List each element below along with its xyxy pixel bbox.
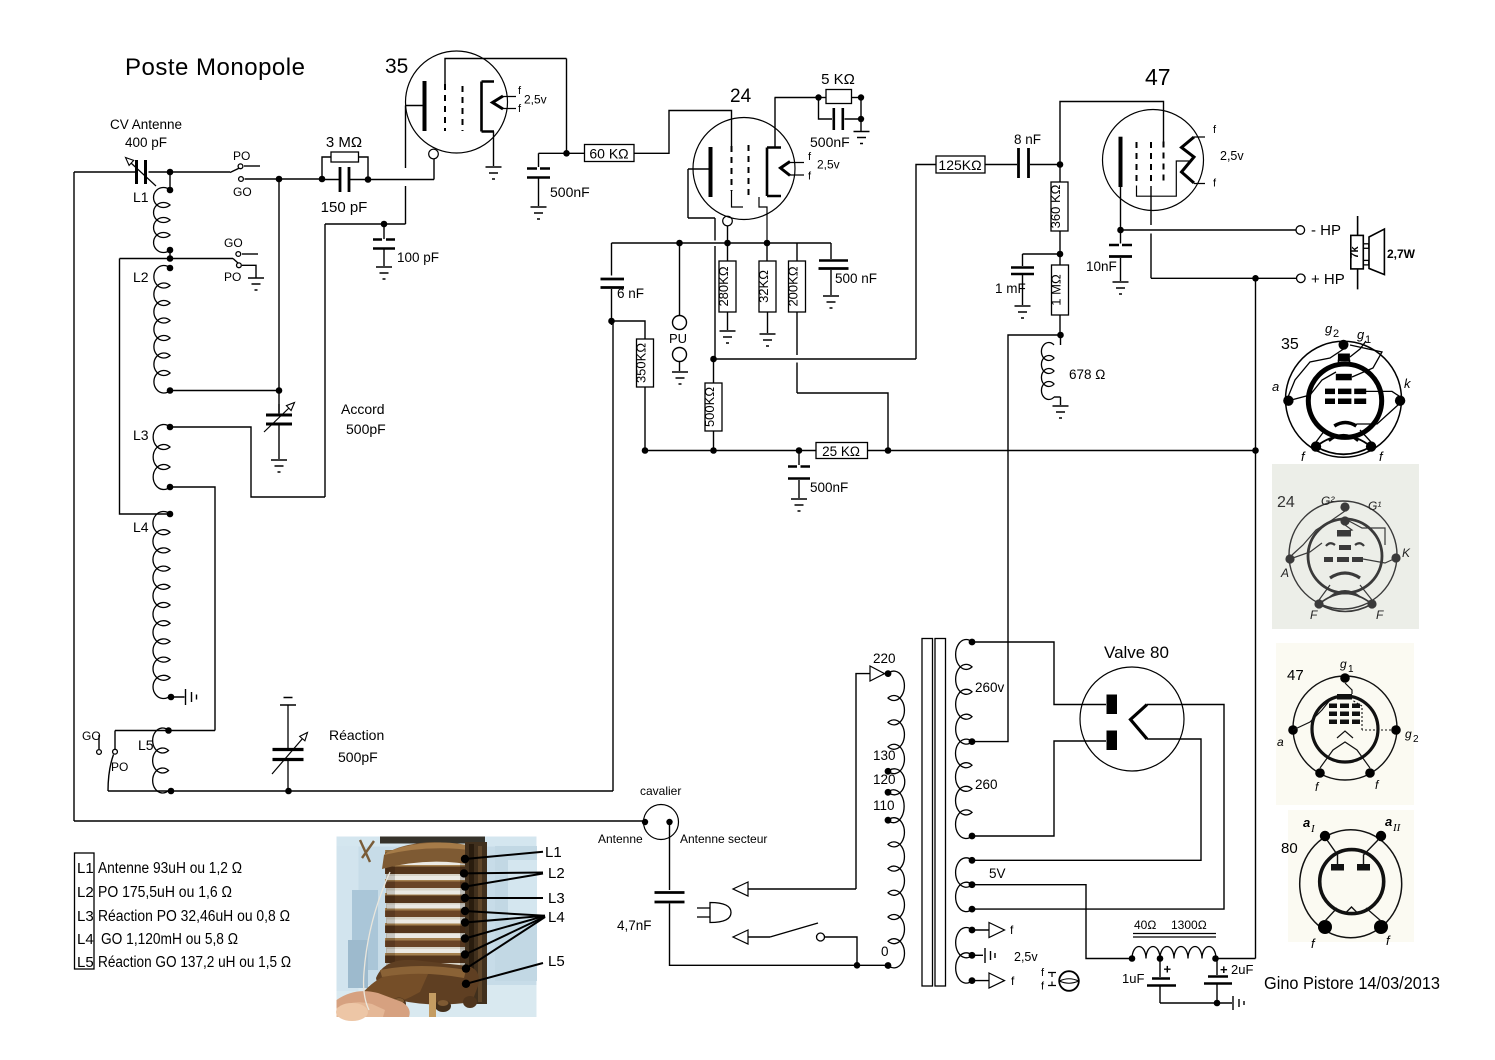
wire antenna input horizontal [74, 171, 135, 173]
switch S2 GO contact [236, 252, 241, 257]
svg-text:L3: L3 [548, 890, 565, 907]
svg-text:24: 24 [730, 86, 752, 107]
wire reaction rail [108, 790, 613, 792]
node L2 top [167, 265, 174, 272]
node sec 260 bottom [969, 833, 976, 840]
node 2.5v bottom [969, 977, 976, 984]
node bus cathode24 [724, 240, 731, 247]
svg-text:L3: L3 [133, 427, 149, 443]
wire PO contact up to L5 line [114, 731, 116, 750]
tube 35 filament leads [503, 97, 516, 109]
node 5V bottom [969, 906, 976, 913]
svg-text:280KΩ: 280KΩ [716, 266, 731, 306]
svg-text:F: F [1310, 608, 1318, 622]
node sec 260v top [969, 639, 976, 646]
svg-text:0: 0 [881, 944, 889, 959]
inductor L1 [154, 188, 171, 253]
wire choke right to HT bus [1216, 958, 1256, 960]
variable capacitor CV Antenne 400pF [137, 160, 146, 184]
switch S1 PO contact [238, 164, 243, 169]
svg-text:1 mF: 1 mF [995, 281, 1026, 296]
svg-text:- HP: - HP [1311, 222, 1341, 239]
ground tube 35 cathode [486, 167, 502, 179]
resistor 500Kohm [713, 359, 715, 383]
node 1Mohm bottom [1057, 332, 1064, 339]
svg-text:g: g [1405, 727, 1412, 741]
svg-text:Antenne secteur: Antenne secteur [680, 832, 767, 846]
wire 6nF to 350K [612, 321, 646, 339]
capacitor 10 nF [1120, 230, 1122, 244]
wire 2.5v bottom to arrow [972, 980, 989, 982]
node L3 bottom [167, 484, 174, 491]
choke 40ohm winding [1132, 947, 1160, 959]
pickup PU terminal top [673, 316, 687, 330]
svg-text:360 KΩ: 360 KΩ [1048, 184, 1063, 228]
tube V4 valve 80 envelope [1080, 667, 1184, 771]
svg-text:1uF: 1uF [1122, 971, 1144, 986]
svg-text:220: 220 [873, 651, 896, 666]
capacitor 100 pF [373, 238, 395, 241]
svg-text:1: 1 [1348, 664, 1354, 675]
svg-text:500KΩ: 500KΩ [702, 387, 717, 427]
arrow mains top [870, 666, 885, 681]
speaker driver links [1363, 244, 1369, 249]
resistor 200Kohm [796, 243, 798, 261]
svg-text:a: a [1272, 379, 1279, 394]
svg-text:+: + [1220, 962, 1228, 977]
node +HP junction [1252, 275, 1259, 282]
socket diagram 35 [1272, 321, 1412, 464]
svg-text:500nF: 500nF [810, 134, 850, 150]
node choke left [1129, 955, 1136, 962]
node L3 top [167, 424, 174, 431]
node tuning cap top [276, 387, 283, 394]
svg-text:Réaction: Réaction [329, 727, 384, 743]
wire tuning cap to ground [278, 425, 280, 459]
wire L1 bottom [169, 250, 171, 259]
svg-text:L2: L2 [133, 269, 149, 285]
ground 500nF fourth [791, 499, 807, 511]
node L1 winding top [167, 187, 174, 194]
wire bias bus [645, 450, 816, 452]
socket diagram 24 [1272, 464, 1419, 629]
svg-text:2,5v: 2,5v [1014, 950, 1038, 964]
node 6nF bottom [608, 318, 615, 325]
wire grid-line down to tuning cap [278, 179, 280, 413]
resistor 360 Kohm [1059, 165, 1061, 183]
capacitor 500nF second [819, 98, 833, 120]
svg-text:a: a [1385, 814, 1392, 829]
svg-text:5 KΩ: 5 KΩ [821, 71, 855, 88]
ground 10nF [1113, 282, 1129, 294]
capacitor 2uF electrolytic [1216, 959, 1218, 976]
wire valve filament bottom to 5V top tap [972, 739, 1201, 860]
node L1 bottom tap [167, 255, 174, 262]
svg-text:CV Antenne: CV Antenne [110, 117, 182, 132]
tube V3 type 47 envelope [1103, 110, 1204, 211]
coil photo [336, 837, 537, 1022]
resistor 60 Kohm [539, 152, 567, 154]
wire bottom rail [74, 820, 644, 822]
wire reaction rail up to 6nF node [612, 321, 614, 791]
resistor 5 Kohm [819, 97, 827, 99]
node 5K right [858, 94, 864, 100]
capacitor 4.7nF [655, 891, 685, 894]
svg-text:35: 35 [385, 55, 408, 78]
capacitor 500nF first [538, 153, 540, 167]
wire PU bottom to ground [679, 362, 681, 372]
svg-text:L5: L5 [138, 737, 154, 753]
svg-text:A: A [1280, 566, 1289, 580]
svg-text:500 nF: 500 nF [835, 271, 877, 286]
svg-text:Valve 80: Valve 80 [1104, 643, 1169, 662]
svg-text:10nF: 10nF [1086, 259, 1117, 274]
wire L2 bottom to tuning cap [170, 390, 279, 392]
svg-text:F: F [1376, 608, 1384, 622]
tube 35 cathode [482, 82, 495, 132]
wire left drop from antenna line [73, 172, 75, 821]
wire 260 bottom to valve plate 2 [972, 741, 1106, 836]
resistor R1 3 Mohm [322, 157, 331, 179]
capacitor 500nF fourth [798, 451, 800, 466]
svg-text:500pF: 500pF [346, 421, 386, 437]
svg-text:47: 47 [1145, 64, 1171, 90]
svg-text:Réaction GO 137,2 uH ou 1,5 Ω: Réaction GO 137,2 uH ou 1,5 Ω [98, 954, 291, 971]
svg-text:1300Ω: 1300Ω [1171, 918, 1207, 932]
ground switch2 PO [248, 278, 264, 290]
ground PU [672, 372, 688, 384]
inductor L4 [153, 512, 170, 699]
svg-text:24: 24 [1277, 494, 1295, 511]
svg-text:Gino Pistore 14/03/2013: Gino Pistore 14/03/2013 [1264, 973, 1440, 993]
ground 5K network [854, 132, 870, 144]
inductor L2 [154, 266, 170, 394]
node L2 bottom [167, 387, 174, 394]
svg-text:3 MΩ: 3 MΩ [326, 134, 362, 151]
valve 80 anode plate I [1107, 695, 1118, 715]
switch S2 PO contact [237, 263, 242, 268]
wire HT bus right [1255, 278, 1257, 958]
node choke center [1157, 955, 1164, 962]
wire 60K to tube24 grid [634, 111, 732, 154]
socket diagram 80 [1281, 810, 1414, 951]
node tap 130 [885, 768, 892, 775]
antenna tap symbol L4 bottom [174, 689, 197, 705]
valve 80 anode plate II [1107, 731, 1118, 751]
svg-text:2: 2 [1333, 328, 1339, 340]
node L4 bottom [168, 694, 175, 701]
svg-text:350KΩ: 350KΩ [634, 343, 649, 383]
tube 47 grid g1 [1163, 142, 1165, 186]
wire 260v top to valve plate 1 [972, 642, 1106, 705]
tube 47 grid g2 [1150, 142, 1152, 186]
svg-text:GO 1,120mH ou 5,8 Ω: GO 1,120mH ou 5,8 Ω [101, 931, 238, 948]
svg-text:K: K [1402, 546, 1411, 560]
resistor 350Kohm [637, 339, 654, 387]
svg-text:4,7nF: 4,7nF [617, 918, 652, 933]
svg-text:Antenne: Antenne [598, 832, 643, 846]
tube 35 filament [493, 96, 504, 109]
wire 5V mid tap to filter input [972, 885, 1132, 959]
node L4 top [167, 511, 174, 518]
node sec 260v bottom [969, 738, 976, 745]
resistor 1 Mohm [1059, 254, 1061, 265]
svg-text:g: g [1340, 657, 1347, 671]
valve 80 filament [1131, 705, 1148, 740]
wire tube35 top to 60K node [566, 59, 568, 154]
node bias bus left [642, 447, 649, 454]
node tube47 anode junction [1117, 227, 1124, 234]
svg-text:G¹: G¹ [1368, 499, 1381, 513]
tube 47 g3 internal link [1137, 161, 1190, 196]
wire grid top tube 47 [1060, 102, 1164, 165]
node L5 top [165, 727, 172, 734]
svg-text:L2: L2 [77, 884, 94, 901]
node 25K right [885, 447, 892, 454]
wire 4.7nF to zero tap [670, 904, 886, 966]
svg-text:5V: 5V [989, 866, 1006, 881]
capacitor 150 pF [340, 167, 349, 192]
wire 360K to node [1059, 231, 1061, 254]
node 5K left [815, 94, 821, 100]
wire 500K to bias bus [713, 431, 715, 451]
tube 47 filament leads [1194, 137, 1205, 184]
wire plate lead tube35 down [405, 106, 407, 169]
svg-text:L1: L1 [133, 189, 149, 205]
symbol 2.5v mid tap [985, 948, 995, 963]
node tap 220 [885, 670, 892, 677]
wire valve filament top to 5V bottom tap [972, 705, 1224, 910]
node 5V mid [969, 881, 976, 888]
arrow 2.5v bottom [989, 973, 1005, 988]
svg-text:G²: G² [1321, 494, 1335, 508]
transformer secondary 260 lower [956, 739, 973, 838]
tube 35 anode [423, 81, 427, 131]
tube 24 anode [709, 147, 713, 197]
wire mains top arrow [748, 674, 870, 889]
svg-text:130: 130 [873, 748, 896, 763]
tube 47 grid g3 [1136, 142, 1138, 186]
svg-text:L1: L1 [545, 844, 562, 861]
tube 35 grid g1 [444, 84, 446, 131]
wire GO contact to grid line [245, 178, 323, 180]
svg-text:100 pF: 100 pF [397, 250, 439, 265]
svg-text:60 KΩ: 60 KΩ [589, 146, 628, 162]
speaker transformer leads [1357, 216, 1359, 289]
svg-text:II: II [1392, 822, 1402, 834]
tube 35 grid top lead [445, 59, 567, 85]
node choke right [1212, 955, 1219, 962]
svg-text:Poste Monopole: Poste Monopole [125, 54, 305, 81]
node 500nF second right [858, 116, 864, 122]
svg-text:400 pF: 400 pF [125, 135, 167, 150]
svg-text:g: g [1357, 327, 1365, 342]
svg-text:GO: GO [233, 185, 252, 199]
mains switch blade [770, 923, 818, 937]
tube 24 grid g1 [731, 146, 733, 191]
tube 24 grid g2 [748, 145, 750, 197]
svg-text:PO: PO [233, 149, 250, 163]
wire 6nF down to reaction rail marker [611, 321, 613, 325]
variable capacitor Accord 500pF [266, 414, 292, 417]
inductance table box [75, 853, 95, 969]
tube 35 cathode ground lead [493, 132, 495, 167]
svg-text:2uF: 2uF [1231, 962, 1253, 977]
speaker cone 2.7W [1369, 229, 1384, 275]
svg-text:Accord: Accord [341, 401, 385, 417]
wire 32K to ground [767, 312, 769, 333]
pilot lamp leads [1048, 973, 1056, 986]
node 25K left [796, 447, 803, 454]
resistor 125Kohm [916, 165, 936, 360]
node cavalier left [642, 819, 648, 825]
svg-text:678 Ω: 678 Ω [1069, 367, 1105, 382]
wire filter bottom rail [1160, 1002, 1232, 1004]
svg-text:35: 35 [1281, 336, 1299, 353]
wire 5K right to ground [860, 98, 862, 132]
arrow 2.5v top [989, 923, 1005, 938]
node 500K top [710, 356, 717, 363]
node cavalier right [666, 819, 672, 825]
capacitor 1 mF [1023, 254, 1061, 266]
node grid line junction x279 [276, 176, 283, 183]
svg-text:500pF: 500pF [338, 749, 378, 765]
node L1 winding bottom [167, 247, 174, 254]
wire PO contact to ground [242, 265, 256, 278]
ground 280K [720, 331, 736, 343]
svg-text:L5: L5 [548, 953, 565, 970]
node 2.5v mid [969, 952, 976, 959]
svg-text:Réaction PO 32,46uH ou 0,8 Ω: Réaction PO 32,46uH ou 0,8 Ω [98, 908, 290, 925]
wire cavalier to 4.7nF [669, 824, 671, 890]
capacitor 8 nF [985, 164, 1017, 166]
wire +HP [1256, 277, 1297, 279]
wire bias bus right [868, 450, 1256, 452]
tube 47 anode [1119, 137, 1123, 187]
ground 1mF [1015, 306, 1031, 318]
wire L3 top to tank [170, 427, 325, 497]
switch S1 GO contact [239, 177, 244, 182]
filter bottom tap symbol [1233, 996, 1244, 1010]
svg-text:500nF: 500nF [550, 184, 590, 200]
transformer core [922, 639, 933, 987]
svg-text:40Ω: 40Ω [1134, 918, 1156, 932]
ground 100pF [376, 267, 392, 279]
wire 1Mohm to node [1059, 315, 1061, 335]
svg-text:2,7W: 2,7W [1387, 247, 1416, 261]
tube V2 type 24 envelope [693, 118, 795, 220]
svg-text:7k: 7k [1349, 246, 1361, 259]
svg-text:2,5v: 2,5v [817, 158, 840, 172]
svg-text:47: 47 [1287, 667, 1304, 684]
wire mains bottom arrow to switch [748, 936, 770, 938]
tube 24 anode lead [688, 169, 715, 359]
arrow mains bottom [733, 930, 748, 944]
wire CV to node [149, 171, 231, 173]
tube 35 anode lead [406, 105, 424, 107]
resistor 280Kohm [727, 243, 729, 261]
choke 1300ohm winding [1160, 947, 1216, 959]
wire 100pF junction row [325, 223, 406, 225]
svg-text:PO 175,5uH ou 1,6 Ω: PO 175,5uH ou 1,6 Ω [98, 884, 232, 901]
wire 125K link row [714, 358, 917, 360]
plug symbol [710, 903, 731, 923]
tube V1 type 35 envelope [406, 51, 508, 153]
choke core bar [1133, 934, 1216, 938]
svg-text:2: 2 [1413, 734, 1419, 745]
speaker transformer 7k [1351, 235, 1364, 269]
tube 47 g2 lead to +HP rail [1151, 186, 1256, 278]
svg-text:L4: L4 [77, 931, 94, 948]
wire L5 top horizontal [115, 730, 215, 732]
wire cathode bias to 5K [775, 97, 819, 99]
wire anode to -HP [1121, 229, 1297, 231]
photo terminal dots and label lines [460, 852, 545, 988]
tube 24 cathode [767, 148, 781, 197]
wire cathode bus tube24 [612, 242, 832, 244]
ground 500nF third [823, 296, 839, 308]
svg-text:260: 260 [975, 777, 998, 792]
wire node to L1 [169, 172, 171, 190]
svg-text:cavalier: cavalier [640, 784, 681, 798]
transformer primary winding 220-0 [888, 671, 904, 774]
node filter bottom [1214, 1000, 1221, 1007]
svg-text:L4: L4 [133, 519, 149, 535]
switch S1 blade [230, 168, 240, 173]
svg-text:1 MΩ: 1 MΩ [1049, 274, 1064, 306]
svg-text:200KΩ: 200KΩ [786, 266, 801, 306]
ground reaction above [280, 698, 296, 706]
svg-text:120: 120 [873, 772, 896, 787]
node 3Mohm left [319, 176, 326, 183]
inductor L3 [153, 425, 170, 490]
node 360K bottom [1057, 251, 1064, 258]
svg-text:a: a [1303, 815, 1310, 830]
tube 47 filament [1182, 137, 1195, 183]
tube 24 filament leads [790, 163, 804, 176]
node tap 120 [885, 789, 892, 796]
node mains switch bottom [854, 962, 861, 969]
terminal -HP [1296, 226, 1305, 235]
wire PU top [679, 243, 681, 316]
svg-text:32KΩ: 32KΩ [756, 270, 771, 303]
svg-text:GO: GO [224, 236, 243, 250]
tube 24 cathode port circle [723, 216, 733, 226]
svg-text:+: + [1164, 962, 1172, 977]
wire L3 bottom to L5 drop [170, 487, 215, 731]
svg-text:8 nF: 8 nF [1014, 132, 1041, 147]
svg-text:2,5v: 2,5v [524, 93, 547, 107]
node bias bus 500K [710, 447, 717, 454]
svg-text:g: g [1325, 321, 1333, 336]
svg-text:a: a [1277, 735, 1284, 749]
arrow mains mid [733, 882, 748, 896]
svg-text:2,5v: 2,5v [1220, 149, 1244, 163]
svg-text:GO: GO [82, 729, 101, 743]
svg-text:260v: 260v [975, 680, 1005, 695]
node 3Mohm right [365, 176, 372, 183]
svg-text:6 nF: 6 nF [617, 286, 644, 301]
transformer secondary 260v upper [956, 640, 972, 745]
tube 24 internal return [759, 197, 767, 240]
ground 32K [760, 334, 776, 346]
node tap 110 [885, 817, 892, 824]
svg-text:L3: L3 [77, 908, 94, 925]
wire 200K to 25K right node [797, 312, 888, 451]
node bus internal [764, 240, 771, 247]
ground 500nF first [531, 207, 547, 219]
svg-text:PU: PU [669, 331, 687, 346]
